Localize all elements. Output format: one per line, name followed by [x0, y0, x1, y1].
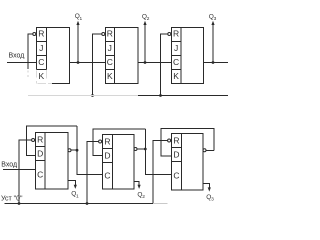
inverter bubble on R of DD5	[99, 140, 102, 143]
wire: R of DD4 down to set-0 rail	[19, 140, 32, 204]
arrowhead Q3	[211, 21, 214, 25]
flip-flop DD3 C/K divider	[172, 69, 182, 71]
flip-flop DD6 D/C divider	[172, 161, 182, 163]
arrowhead Q2	[143, 21, 146, 25]
reset rail (faded left part)	[28, 95, 138, 97]
svg-text:C: C	[37, 170, 43, 180]
set-0 rail (faded right part)	[153, 203, 168, 205]
junction R DD4 on rail	[18, 202, 21, 205]
svg-text:2: 2	[147, 16, 150, 22]
wire: bottom input to C of DD4	[3, 168, 36, 170]
svg-text:R: R	[38, 29, 44, 39]
flip-flop DD1 J/C section divider	[37, 55, 47, 57]
svg-text:C: C	[173, 171, 179, 181]
inverter bubble NQ output of DD5	[134, 148, 137, 151]
svg-text:Вход: Вход	[1, 161, 17, 168]
flip-flop DD1 C/K section divider	[37, 69, 47, 71]
wire: Q1 arrow stem	[77, 23, 79, 63]
flip-flop DD5 R/D divider	[103, 148, 113, 150]
svg-text:Уст "0": Уст "0"	[1, 195, 23, 202]
wire: DD5 feedback loop NQ to D	[93, 129, 145, 155]
arrowhead Q1 lower	[74, 185, 77, 189]
flip-flop DD5 label-column divider	[112, 135, 114, 190]
svg-text:3: 3	[211, 197, 214, 203]
inverter bubble on R of DD3	[168, 33, 171, 36]
flip-flop DD5 D/C divider	[103, 162, 113, 164]
wire: R of DD5 down to set-0 rail	[87, 142, 99, 204]
flip-flop DD5 (D) outline	[103, 135, 135, 190]
junction R DD3 on rail	[159, 94, 162, 97]
wire: Q2 output of DD2 to C of DD3	[138, 62, 172, 64]
inverter bubble on R of DD2	[102, 33, 105, 36]
svg-text:R: R	[104, 136, 110, 146]
inverter bubble NQ output of DD4	[68, 149, 71, 152]
junction Q1	[77, 61, 80, 64]
reset rail (dark right part)	[138, 95, 228, 97]
svg-text:C: C	[38, 57, 44, 67]
junction R DD2 on rail	[91, 94, 94, 97]
wire: NQ of DD4 to junction	[71, 149, 77, 151]
svg-text:R: R	[173, 29, 179, 39]
wire: Q3 arrow stem	[212, 23, 214, 63]
svg-text:K: K	[173, 71, 179, 81]
flip-flop DD6 (D) outline	[172, 134, 204, 191]
flip-flop DD2 J/C divider	[106, 55, 115, 57]
inverter bubble on R of DD6	[168, 139, 171, 142]
wire: R of DD2 down to reset rail	[93, 34, 102, 96]
svg-text:D: D	[173, 149, 179, 159]
flip-flop DD2 label-column divider	[114, 28, 116, 84]
svg-text:C: C	[107, 57, 113, 67]
flip-flop DD2 (JK) outline	[106, 28, 139, 84]
wire: DD4 feedback loop NQ to D	[27, 126, 78, 155]
inverter bubble on R of DD4	[32, 139, 35, 142]
svg-text:2: 2	[142, 194, 145, 200]
flip-flop DD1 (JK) outline	[37, 28, 70, 84]
junction NQ DD5	[144, 148, 147, 151]
junction R DD5 on rail	[86, 202, 89, 205]
arrowhead Q3 lower	[208, 187, 211, 191]
flip-flop DD4 (D) outline	[36, 133, 69, 190]
flip-flop DD6 R/D divider	[172, 147, 182, 149]
wire: Q3 output of DD3 to right edge	[204, 62, 229, 64]
svg-text:1: 1	[80, 16, 83, 22]
flip-flop DD3 label-column divider	[180, 28, 182, 84]
svg-text:3: 3	[214, 16, 217, 22]
wire: NQ of DD4 down to C of DD5	[77, 126, 103, 175]
flip-flop DD2 C/K divider	[106, 69, 115, 71]
wire: DD6 feedback loop NQ to D	[161, 129, 214, 157]
wire: NQ of DD5 down to C of DD6	[145, 129, 171, 175]
svg-text:J: J	[39, 43, 43, 53]
wire: NQ of DD6 to loop corner	[206, 149, 214, 151]
flip-flop DD4 D/C divider	[36, 160, 46, 162]
inverter bubble NQ output of DD6	[203, 149, 206, 152]
wire: R of DD6 left and down to set-0 rail	[153, 141, 168, 204]
flip-flop DD4 label-column divider	[44, 133, 46, 190]
junction NQ DD4	[76, 149, 79, 152]
svg-text:J: J	[174, 43, 178, 53]
wire: Q2 arrow stem	[144, 23, 146, 63]
wire: Q2 lower output arrow stem	[134, 181, 139, 186]
svg-text:R: R	[107, 29, 113, 39]
wire: Q3 lower output arrow stem	[203, 183, 209, 189]
wire: Q1 lower output arrow stem	[68, 180, 75, 186]
junction Q2	[144, 61, 147, 64]
wire: R of DD3 down to reset rail	[161, 34, 168, 96]
flip-flop DD3 R/J divider	[172, 41, 182, 43]
arrowhead Q2 lower	[138, 185, 141, 189]
wire: Q1 output of DD1 to C of DD2	[70, 62, 106, 64]
svg-text:J: J	[108, 43, 112, 53]
arrowhead Q1	[76, 21, 79, 25]
wire: NQ of DD5 to junction	[137, 148, 145, 150]
svg-text:D: D	[104, 150, 110, 160]
flip-flop DD2 R/J divider	[106, 41, 115, 43]
flip-flop DD3 J/C divider	[172, 55, 182, 57]
wire: input to C of DD1	[7, 62, 37, 64]
inverter bubble on R of DD1	[33, 33, 36, 36]
svg-text:1: 1	[76, 193, 79, 199]
svg-text:R: R	[37, 134, 43, 144]
set-0 rail (dark part)	[5, 203, 154, 205]
wire: R of DD1 down (partly faded)	[28, 34, 33, 69]
svg-text:R: R	[173, 135, 179, 145]
flip-flop DD6 label-column divider	[181, 134, 183, 191]
flip-flop DD3 (JK) outline	[172, 28, 204, 84]
svg-text:D: D	[37, 148, 43, 158]
flip-flop DD1 label-column divider	[46, 28, 48, 70]
svg-text:K: K	[38, 71, 44, 81]
svg-text:C: C	[173, 57, 179, 67]
junction Q3	[212, 61, 215, 64]
flip-flop DD1 R/J section divider	[37, 41, 47, 43]
svg-text:K: K	[107, 71, 113, 81]
svg-text:C: C	[104, 171, 110, 181]
flip-flop DD4 R/D divider	[36, 146, 46, 148]
svg-text:Вход: Вход	[9, 53, 25, 60]
flip-flop DD1 faded K-section edges	[37, 70, 53, 84]
